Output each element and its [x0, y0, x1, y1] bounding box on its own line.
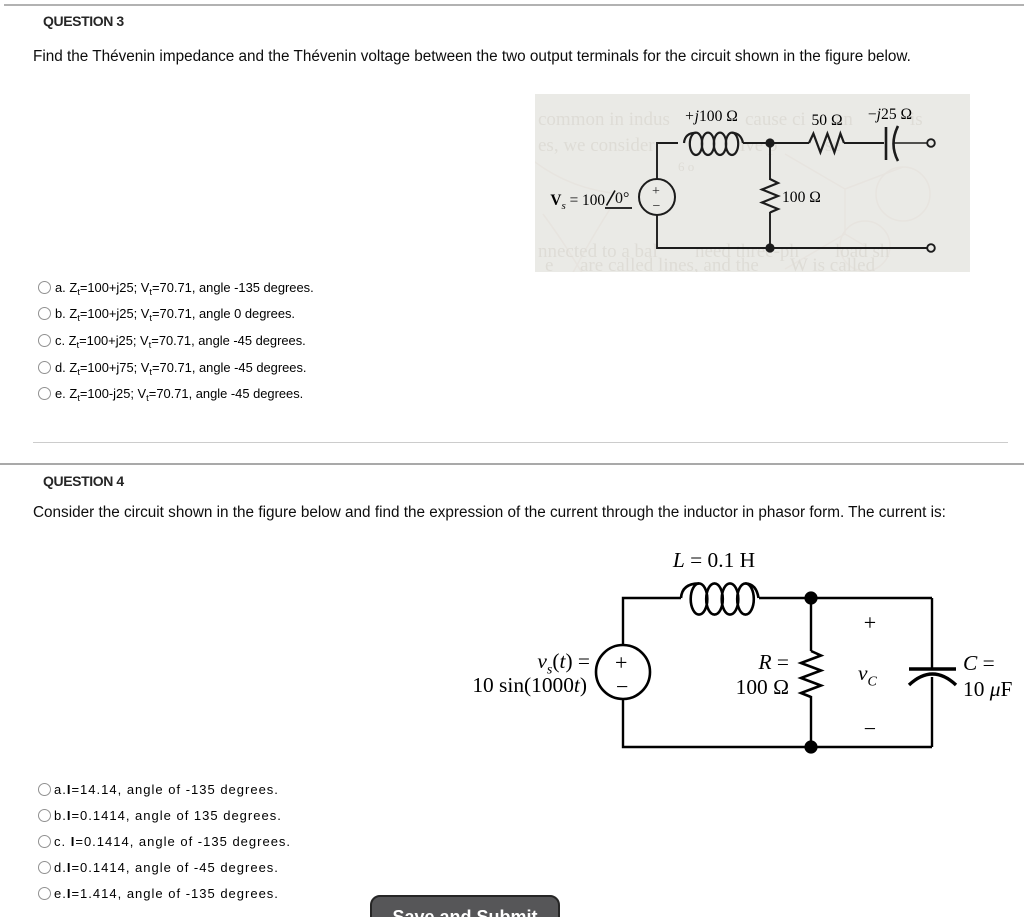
svg-text:6 o: 6 o: [678, 159, 694, 174]
svg-text:+: +: [615, 650, 627, 675]
svg-text:+: +: [652, 184, 660, 199]
svg-text:common in indus: common in indus: [538, 109, 670, 130]
svg-text:−: −: [653, 199, 661, 214]
svg-text:0°: 0°: [615, 190, 629, 207]
svg-text:es, we consider: es, we consider: [538, 135, 655, 156]
svg-text:W is called: W is called: [790, 255, 876, 272]
svg-text:are called lines, and the: are called lines, and the: [580, 255, 759, 272]
svg-text:−: −: [616, 674, 628, 699]
svg-text:e: e: [545, 255, 553, 272]
